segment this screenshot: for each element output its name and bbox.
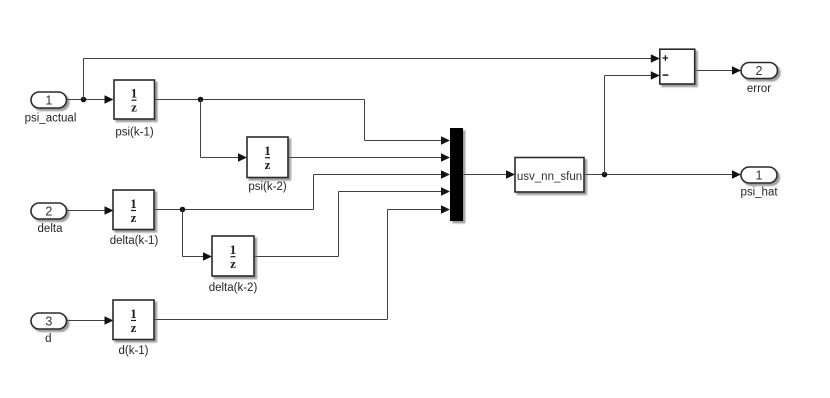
wire: into delta(k-2) (183, 252, 213, 261)
wire: branch up from psi_actual (83, 59, 85, 100)
wire: into mux port 5 (388, 205, 451, 214)
wire: d to d(k-1) (66, 316, 114, 325)
wire: into mux port 4 (339, 187, 451, 196)
sum block (660, 49, 695, 84)
wire: into mux port 1 (365, 136, 451, 145)
wire: up to mux port5 level (387, 210, 389, 320)
mux (450, 128, 463, 221)
svg-text:psi(k-1): psi(k-1) (115, 127, 154, 139)
svg-text:2: 2 (756, 64, 763, 78)
svg-text:psi_actual: psi_actual (25, 113, 77, 125)
wire: down to mux port1 level (364, 100, 366, 141)
wire: up to mux port3 level (313, 175, 315, 210)
wire: psi(k-1) output run (155, 99, 365, 101)
wire: up from junction to sum - input level (604, 76, 606, 175)
wire: delta(k-1) output run (154, 209, 314, 211)
s-function usv_nn_sfun (515, 158, 584, 193)
svg-text:d: d (45, 333, 51, 345)
wire: into psi(k-2) (201, 153, 248, 162)
wire: psi_actual to psi(k-1) (66, 95, 114, 104)
svg-text:z: z (265, 157, 271, 172)
wire: branch down to delta(k-2) (182, 210, 184, 257)
wire: delta(k-2) output run (254, 256, 339, 258)
wire: up to mux port4 level (338, 192, 340, 257)
junction B (psi(k-1) output branch) (198, 97, 204, 103)
outport 2 error (741, 63, 778, 96)
svg-text:1: 1 (130, 196, 137, 211)
svg-text:d(k-1): d(k-1) (118, 345, 148, 357)
svg-text:1: 1 (131, 86, 138, 101)
svg-text:3: 3 (45, 315, 52, 329)
unit delay d(k-1) (113, 300, 154, 357)
svg-text:psi(k-2): psi(k-2) (248, 181, 287, 193)
inport 3 d (31, 313, 67, 345)
svg-text:z: z (230, 256, 236, 271)
svg-text:1: 1 (264, 143, 271, 158)
wire: d(k-1) output run (154, 319, 388, 321)
outport 1 psi_hat (740, 167, 778, 199)
inport 1 psi_actual (25, 92, 77, 125)
wire: sum output to error (695, 66, 741, 75)
wire: into sum - input (605, 71, 660, 80)
svg-text:delta(k-2): delta(k-2) (209, 282, 258, 294)
wire: usv_nn_sfun output to psi_hat (584, 170, 741, 179)
svg-text:z: z (131, 320, 137, 335)
unit delay delta(k-2) (209, 236, 258, 294)
svg-text:psi_hat: psi_hat (740, 187, 778, 199)
svg-text:delta(k-1): delta(k-1) (110, 235, 159, 247)
svg-text:1: 1 (45, 94, 52, 108)
svg-text:2: 2 (45, 205, 52, 219)
junction A (psi_actual branch) (81, 97, 87, 103)
unit delay psi(k-1) (114, 80, 155, 139)
unit delay delta(k-1) (110, 190, 159, 247)
junction D (usv output branch) (602, 172, 608, 178)
svg-text:z: z (131, 210, 137, 225)
svg-text:error: error (747, 83, 771, 95)
unit delay psi(k-2) (247, 137, 288, 193)
svg-text:usv_nn_sfun: usv_nn_sfun (517, 171, 582, 183)
svg-text:1: 1 (756, 169, 763, 183)
svg-text:1: 1 (130, 306, 137, 321)
svg-text:1: 1 (230, 242, 237, 257)
svg-text:z: z (131, 100, 137, 115)
junction C (delta(k-1) output branch) (180, 207, 186, 213)
wire: branch down to psi(k-2) (200, 100, 202, 158)
svg-text:delta: delta (38, 223, 64, 235)
wire: mux output to usv_nn_sfun (463, 170, 515, 179)
wire: into mux port 3 (314, 170, 451, 179)
wire: top long run to sum + input (84, 54, 660, 63)
wire: psi(k-2) output into mux port 2 (288, 153, 450, 162)
inport 2 delta (31, 203, 67, 235)
wire: delta to delta(k-1) (66, 206, 114, 215)
